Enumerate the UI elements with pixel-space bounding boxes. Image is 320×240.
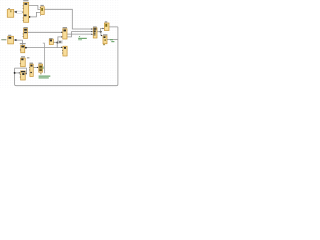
junction dot bottom-left: [14, 72, 16, 74]
X1 port tick: [39, 6, 42, 9]
junction dot at M1 out: [100, 31, 102, 33]
arrow into O1 in1: [61, 32, 63, 33]
wire: T1 out1 to X1 middle port: [29, 6, 41, 10]
wire: feedback branch across to D1 right-side input: [15, 68, 27, 74]
block B4: [20, 43, 26, 53]
arrow into R2: [101, 35, 103, 36]
wire: O1 out1 to M1 in3: [67, 33, 92, 35]
small olive text below R2: [103, 44, 105, 45]
wire: dot down into R2: [101, 32, 102, 36]
block X1: [40, 5, 44, 16]
green annotation G3 (right of R2, two lines): [110, 39, 115, 42]
junction blob at B4 out: [25, 47, 27, 49]
arrow into M1 in1: [91, 28, 93, 29]
signal label box W1: [17, 11, 22, 13]
arrow into O1 in2: [61, 36, 63, 37]
olive fleck below C2: [40, 73, 41, 74]
block R1: [104, 21, 109, 30]
wire: M1 out to junction dot: [97, 31, 101, 33]
junction dot at T1 output: [28, 16, 30, 18]
arrow at B3 right side: [14, 39, 17, 41]
block C2: [39, 63, 43, 73]
wire: dot up into R1: [101, 28, 104, 31]
arrow into C2: [37, 67, 39, 68]
arrow into T7: [61, 47, 63, 48]
grid dots: [0, 0, 120, 88]
block D1: [20, 71, 26, 80]
block M1: [93, 26, 97, 38]
arrow into D1 left: [19, 72, 21, 73]
green label VD-L left of B3: [1, 39, 6, 40]
wire: O1 out2 up-step to M1 in2: [67, 32, 92, 37]
T1 port ticks: [22, 5, 25, 8]
green annotation G1 (below O1 output wires): [78, 36, 87, 40]
wire: T1 out2 to X1 lower port: [29, 12, 41, 17]
arrow into D1 right side: [25, 73, 26, 74]
wire: into B1 (leftward): [17, 11, 24, 13]
arrow into M1 in2: [91, 31, 93, 32]
wire: feedback loop from R1 output around right/bottom/left: [15, 27, 118, 86]
green fleck right of C2: [42, 67, 45, 69]
wire: R2 out right to feedback line: [107, 39, 118, 41]
block B2: [23, 27, 28, 38]
wire: C1 out into C2: [33, 66, 38, 68]
block B5: [20, 56, 26, 67]
gray label right of B5: [27, 57, 30, 58]
wire: long B2 out to O1 input: [28, 31, 63, 33]
block T1 (tall subsystem): [23, 0, 29, 22]
wire: X1 out right, down, into M1 in1: [44, 9, 92, 29]
block R2: [103, 34, 107, 44]
wire: long vertical with top stub (x 44.4): [43, 43, 45, 73]
block B3: [8, 35, 14, 44]
wire: junction up into O1 in2: [58, 37, 62, 43]
gray text GES over T1 edge: [22, 12, 26, 13]
wire: B3 out, corner down into B4 top: [16, 40, 22, 45]
wire: B4 out long into T7: [25, 47, 62, 49]
junction dot right of B6: [56, 42, 58, 44]
wire: B6 out to junction: [53, 41, 57, 43]
wire: dot to D1 left input: [15, 72, 20, 74]
green annotation G2 (below C2): [39, 76, 51, 79]
block T7: [62, 46, 67, 56]
block C1: [29, 63, 33, 77]
block B6: [49, 38, 53, 45]
signal label box W3: [58, 41, 62, 44]
wire: junction down to B4 wire: [56, 43, 58, 48]
arrow into R1: [103, 28, 105, 29]
block O1: [63, 27, 67, 39]
arrow into B1 right side: [14, 11, 17, 13]
block B1: [7, 8, 14, 17]
arrow into M1 in3: [91, 34, 93, 35]
